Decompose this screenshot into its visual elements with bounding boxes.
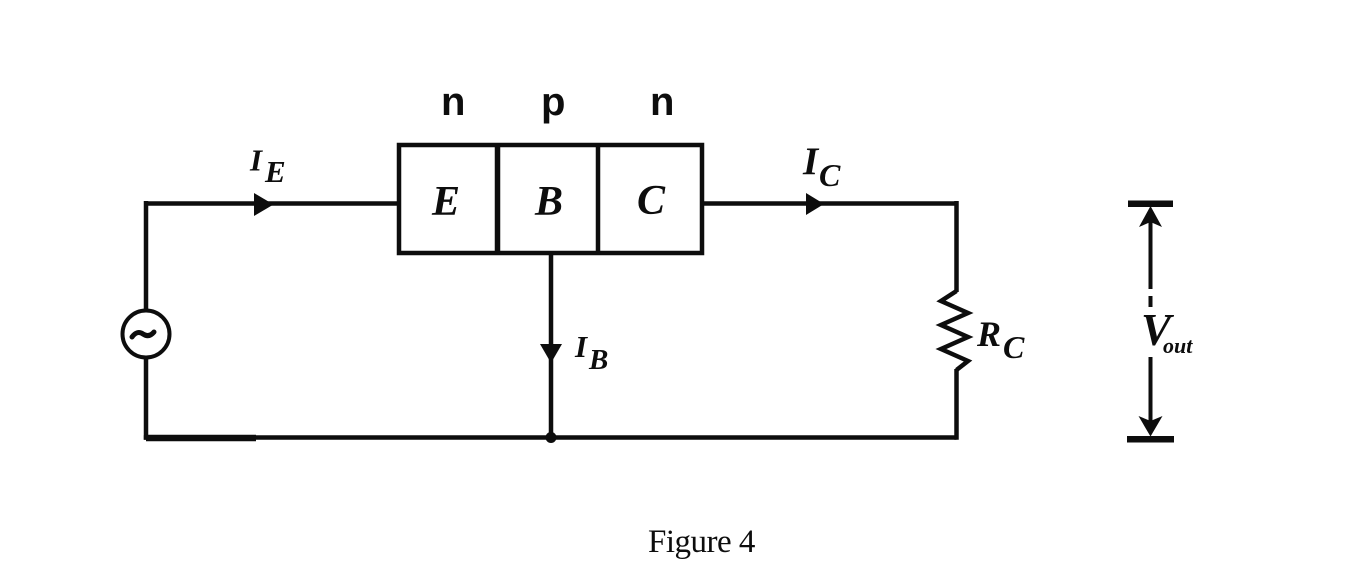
node base-ground junction — [546, 432, 557, 443]
svg-text:n: n — [650, 80, 674, 124]
svg-text:E: E — [431, 179, 460, 225]
wire bottom rail — [144, 435, 957, 440]
Vout top reference bar — [1128, 201, 1173, 208]
Vout top arrow (up) — [1139, 206, 1162, 227]
label I_C — [802, 140, 841, 193]
wire left-top horizontal (source to emitter) — [146, 201, 398, 206]
svg-text:C: C — [1003, 329, 1025, 365]
junction B-C divider — [596, 145, 601, 253]
svg-text:B: B — [588, 344, 608, 376]
Vout bottom arrow (down) — [1139, 416, 1163, 437]
label I_E — [249, 143, 286, 190]
arrow I_E direction — [254, 193, 274, 216]
transistor block npn outline — [399, 145, 702, 253]
label n (emitter doping) — [441, 80, 465, 124]
svg-text:p: p — [541, 80, 565, 124]
svg-text:C: C — [819, 157, 841, 193]
svg-text:E: E — [264, 154, 286, 189]
svg-text:I: I — [574, 329, 588, 364]
label B (base region) — [534, 179, 563, 225]
junction E-B divider — [495, 145, 501, 253]
caption Figure 4 — [648, 524, 755, 560]
wire left vertical (bottom of source) — [144, 357, 149, 440]
label Vout — [1141, 305, 1193, 358]
wire right vertical (top of resistor) — [954, 201, 959, 292]
wire right vertical (bottom of resistor) — [954, 369, 959, 440]
wire left vertical (top of source) — [144, 201, 149, 311]
wire collector-top horizontal — [702, 201, 957, 206]
ac source — [123, 311, 170, 358]
label C (collector region) — [637, 178, 666, 224]
svg-text:n: n — [441, 80, 465, 124]
label p (base doping) — [541, 80, 565, 124]
resistor RC zigzag — [941, 291, 968, 370]
Vout bottom reference bar — [1127, 436, 1174, 443]
Vout measurement line lower — [1149, 357, 1153, 421]
arrow I_C direction — [806, 193, 824, 215]
svg-text:C: C — [637, 178, 666, 224]
svg-text:I: I — [802, 140, 820, 183]
label E (emitter region) — [431, 179, 460, 225]
svg-text:I: I — [249, 143, 263, 178]
svg-text:Figure 4: Figure 4 — [648, 524, 755, 560]
svg-text:B: B — [534, 179, 563, 225]
label RC — [976, 314, 1025, 365]
svg-text:out: out — [1163, 333, 1193, 358]
wire base vertical — [549, 253, 554, 438]
Vout measurement line upper — [1149, 218, 1153, 307]
arrow I_B direction — [540, 344, 562, 363]
label n (collector doping) — [650, 80, 674, 124]
svg-text:R: R — [976, 314, 1001, 354]
label I_B — [574, 329, 608, 376]
